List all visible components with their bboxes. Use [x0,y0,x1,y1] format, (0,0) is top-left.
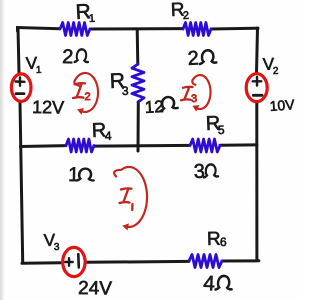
wire right upper segment (node C to V2 + terminal) [257,28,258,73]
label V1 [25,54,42,76]
wire middle-horizontal left segment (left rail junction to R4) [21,144,67,148]
wire top-right segment (R2 to node C corner) [211,27,258,31]
svg-text:2: 2 [183,10,190,22]
wire bottom-left segment (node D to V3 + terminal) [22,261,62,265]
label R6 [207,229,227,250]
mesh current label I1 [120,188,133,210]
wire middle-vertical upper segment (node B to R3) [136,29,140,64]
label R1 [75,0,95,25]
wire top-middle segment (R1 to R2 across node B junction) [90,27,183,30]
svg-text:5: 5 [218,123,225,137]
svg-text:2: 2 [62,46,74,68]
V1 minus sign [16,92,24,95]
mesh current label I2 [73,83,91,103]
wire right lower segment (V2 - terminal to node E corner) [255,102,258,261]
svg-text:1: 1 [89,13,96,25]
voltage source V2 (circle) [246,74,267,102]
svg-text:12V: 12V [32,97,64,118]
label R2 [170,0,189,22]
svg-text:1: 1 [68,164,80,186]
svg-text:4: 4 [105,129,112,143]
svg-text:3: 3 [191,93,197,105]
wire middle-vertical lower segment (R3 to node F) [137,102,140,151]
svg-text:1: 1 [36,65,42,76]
resistor R3 [132,64,144,102]
wire middle-horizontal right segment (R5 to right rail junction) [220,143,257,146]
svg-text:3: 3 [54,242,60,253]
mesh current label I3 [181,87,197,105]
svg-text:2: 2 [273,66,279,77]
resistor R4 [66,139,94,152]
V1 plus sign [16,78,25,86]
label R3 [109,69,129,98]
resistor R5 [190,139,220,152]
V3 plus sign [65,258,73,266]
svg-text:3: 3 [122,84,129,98]
mesh current loop I3 (arrow) [192,75,210,112]
label R4 [91,120,112,143]
svg-text:2: 2 [187,47,199,70]
svg-text:2: 2 [85,91,91,103]
wire left upper segment (node A to V1 + terminal) [18,28,19,73]
wire left lower segment (V1 - terminal to node D corner) [20,102,23,262]
svg-text:10V: 10V [269,96,296,114]
svg-text:6: 6 [220,235,227,249]
svg-text:R: R [207,229,221,250]
V2 minus sign [253,94,262,97]
label V3 [43,231,60,253]
wire bottom-right segment (R6 to node E corner) [222,259,259,262]
V2 plus sign [253,77,262,86]
V3 minus sign (vertical bar) [77,254,80,268]
wire middle-horizontal center segment (R4 to R5 across node F junction) [94,144,190,148]
svg-text:24V: 24V [78,278,112,300]
resistor R2 [183,23,211,36]
svg-text:12: 12 [144,97,164,117]
resistor R1 [60,23,90,36]
wire bottom-middle segment (V3 - terminal to R6) [86,260,189,264]
mesh current loop I1 (arrow) [114,167,147,231]
voltage source V1 (circle) [11,74,31,101]
resistor R6 [189,255,222,268]
label R5 [205,113,225,137]
svg-text:4: 4 [203,272,216,295]
mesh current loop I2 (arrow) [74,73,98,115]
wire top-left segment (node A corner to R1) [18,28,61,32]
voltage source V3 (circle) [63,247,85,276]
label V2 [262,55,279,77]
svg-text:3: 3 [193,161,205,183]
